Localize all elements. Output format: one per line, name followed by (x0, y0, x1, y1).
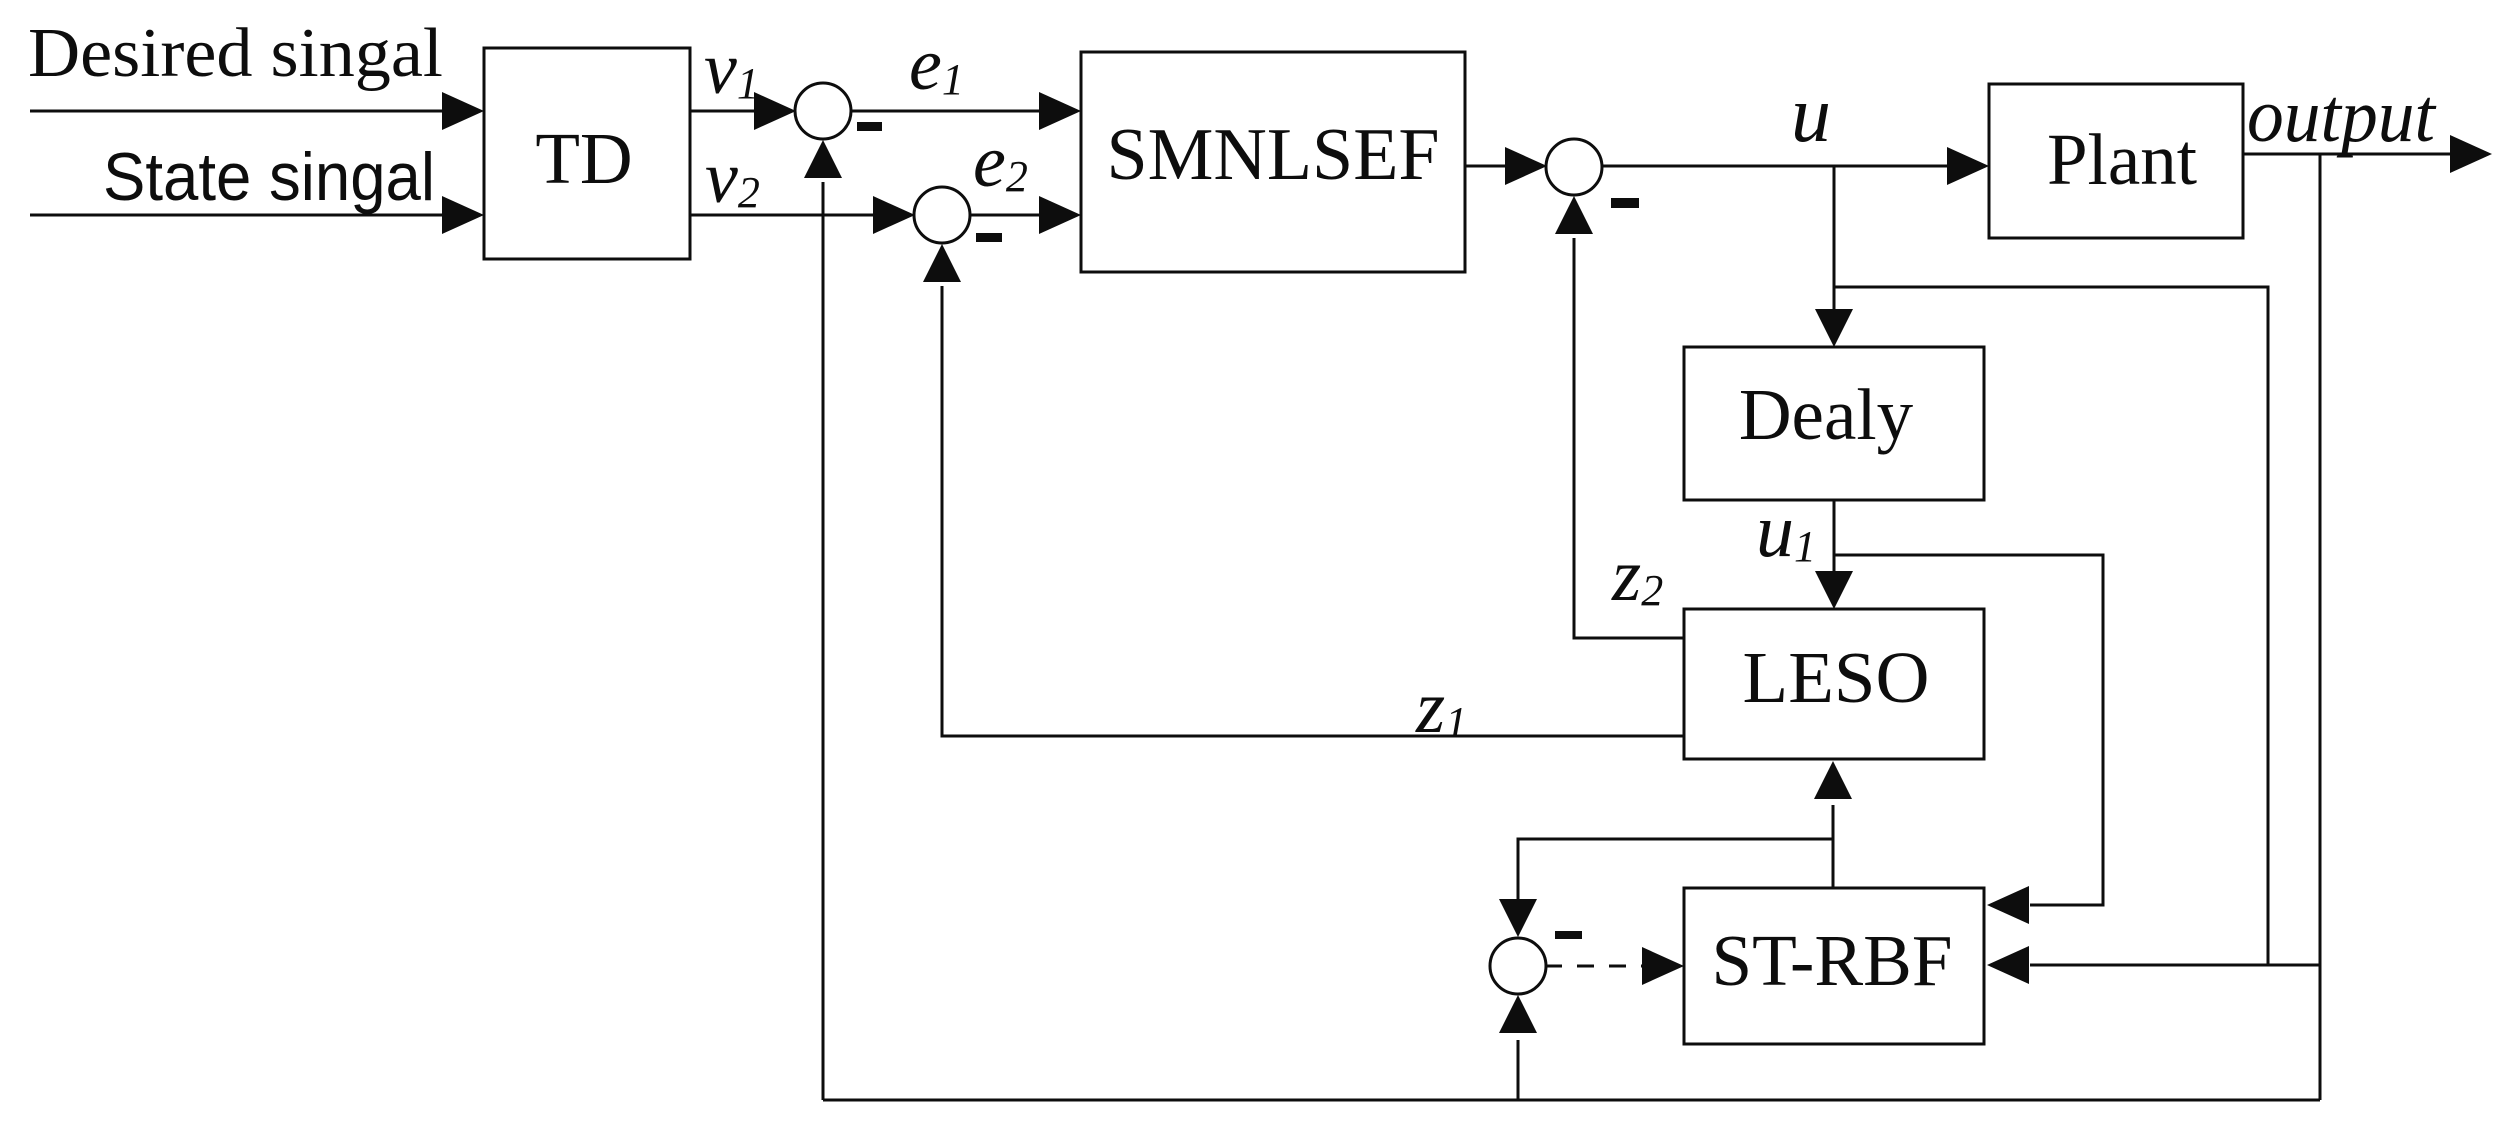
wire Dealy to LESO u1 (1833, 500, 1836, 571)
arrowhead up into S4 (1499, 995, 1537, 1033)
wire bottom feedback rail (823, 1099, 2320, 1102)
wire SMNLSEF to S3 (1465, 165, 1507, 168)
block TD (484, 48, 690, 259)
wire ST-RBF to LESO (1832, 805, 1835, 888)
svg-text:Plant: Plant (2047, 119, 2197, 200)
wire u branch down to Dealy (1833, 166, 1836, 309)
block SMNLSEF (1081, 52, 1465, 272)
block LESO (1684, 609, 1984, 759)
arrowhead v1 into S1 (754, 92, 796, 130)
wire z1 LESO to S2 (942, 286, 1684, 736)
wire v1 TD to S1 (690, 110, 756, 113)
summing node circle S1 (795, 83, 851, 139)
wire output Plant to edge (2243, 153, 2452, 156)
arrowhead dashed into ST-RBF (1642, 947, 1684, 985)
wire u S3 to Plant (1601, 165, 1949, 168)
arrowhead down into S4 (1499, 899, 1537, 937)
svg-text:output: output (2247, 74, 2437, 158)
arrowhead down into Dealy (1815, 309, 1853, 347)
minus sign at S3 (1611, 198, 1639, 208)
wire output feedback down (2319, 154, 2322, 1100)
svg-text:SMNLSEF: SMNLSEF (1106, 114, 1439, 196)
svg-text:ST-RBF: ST-RBF (1712, 920, 1953, 1001)
arrowhead into S3 (1505, 147, 1547, 185)
arrowhead output (2450, 135, 2492, 173)
arrowhead e1 into SMNLSEF (1039, 92, 1081, 130)
summing node circle S4 (1490, 938, 1546, 994)
wire u1 branch right and down to ST-RBF (1834, 555, 2103, 905)
svg-text:LESO: LESO (1743, 637, 1930, 718)
block ST-RBF (1684, 888, 1984, 1044)
arrowhead up into LESO bottom (1814, 761, 1852, 799)
wire output to ST-RBF right (2030, 964, 2320, 967)
wire desired-signal input (30, 110, 444, 113)
arrowhead e2 into SMNLSEF (1039, 196, 1081, 234)
wire u branch tee right (1834, 287, 2268, 965)
minus sign at S4 (1555, 931, 1582, 939)
block Dealy (1684, 347, 1984, 500)
wire z2 LESO to S3 (1574, 238, 1684, 638)
wire dashed S4 to ST-RBF (1545, 965, 1642, 968)
arrowhead z1 up into S2 (923, 244, 961, 282)
minus sign at S1 (857, 122, 882, 131)
arrowhead u1 down into LESO (1815, 571, 1853, 609)
arrowhead feedback up into S1 (804, 140, 842, 178)
wire state-signal input (30, 214, 444, 217)
arrowhead output-branch into ST-RBF right (1987, 946, 2029, 984)
summing node circle S3 (1546, 139, 1602, 195)
svg-text:Desired singal: Desired singal (28, 15, 443, 92)
svg-text:Dealy: Dealy (1739, 374, 1914, 455)
arrowhead u1-branch into ST-RBF right (1987, 886, 2029, 924)
svg-text:TD: TD (535, 118, 632, 199)
wire e1 S1 to SMNLSEF (850, 110, 1041, 113)
wire v2 TD to S2 (690, 214, 875, 217)
minus sign at S2 (976, 233, 1002, 242)
block Plant (1989, 84, 2243, 238)
wire branch to S4 top (1518, 839, 1833, 900)
wire e2 S2 to SMNLSEF (969, 214, 1041, 217)
arrowhead v2 into S2 (873, 196, 915, 234)
summing node circle S2 (914, 187, 970, 243)
svg-text:u: u (1791, 71, 1831, 159)
wire feedback bottom to S1 (822, 182, 825, 1100)
arrowhead into TD desired (442, 92, 484, 130)
wire bottom rail up to S4 (1517, 1040, 1520, 1100)
arrowhead into TD state (442, 196, 484, 234)
svg-text:State singal: State singal (103, 139, 435, 215)
arrowhead u into Plant (1947, 147, 1989, 185)
arrowhead z2 up into S3 (1555, 196, 1593, 234)
